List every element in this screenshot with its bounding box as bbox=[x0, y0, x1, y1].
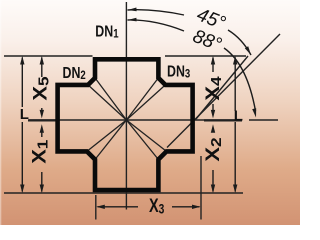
svg-text:L: L bbox=[20, 106, 29, 123]
svg-text:L: L bbox=[234, 108, 243, 125]
